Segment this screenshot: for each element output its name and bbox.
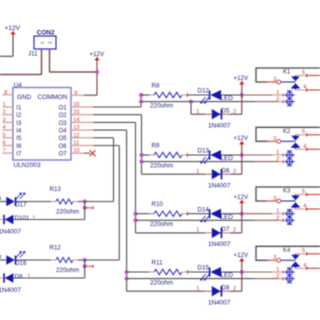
svg-text:220ohm: 220ohm xyxy=(150,221,173,228)
svg-text:1: 1 xyxy=(3,102,6,108)
svg-text:220ohm: 220ohm xyxy=(150,102,173,109)
svg-text:O1: O1 xyxy=(59,105,68,111)
svg-text:O6: O6 xyxy=(59,144,68,150)
svg-text:1: 1 xyxy=(196,286,199,292)
svg-text:COMMON: COMMON xyxy=(38,94,68,101)
svg-text:R13: R13 xyxy=(50,186,62,193)
svg-text:+12V: +12V xyxy=(234,75,249,82)
svg-text:I2: I2 xyxy=(16,113,22,119)
svg-text:12: 12 xyxy=(73,133,79,139)
svg-text:2: 2 xyxy=(233,228,236,234)
svg-text:1: 1 xyxy=(196,228,199,234)
svg-text:ULN2003: ULN2003 xyxy=(14,162,41,169)
svg-text:7: 7 xyxy=(3,148,6,154)
svg-text:3: 3 xyxy=(273,77,276,83)
svg-text:1N4007: 1N4007 xyxy=(208,122,231,129)
svg-text:6: 6 xyxy=(3,141,6,147)
svg-text:+12V: +12V xyxy=(90,51,105,58)
svg-text:2: 2 xyxy=(276,274,279,280)
svg-text:K2: K2 xyxy=(283,129,291,135)
svg-text:+12V: +12V xyxy=(234,135,249,142)
svg-text:D14: D14 xyxy=(198,206,210,213)
svg-text:4: 4 xyxy=(303,204,306,210)
svg-text:1: 1 xyxy=(196,169,199,175)
svg-text:R8: R8 xyxy=(152,82,160,89)
svg-text:K1: K1 xyxy=(283,70,291,76)
svg-text:1N4007: 1N4007 xyxy=(0,229,21,236)
svg-text:2: 2 xyxy=(276,97,279,103)
svg-text:I3: I3 xyxy=(16,121,22,127)
svg-text:1: 1 xyxy=(196,109,199,115)
svg-text:R9: R9 xyxy=(152,142,160,149)
svg-text:I1: I1 xyxy=(16,105,22,111)
svg-text:4: 4 xyxy=(303,263,306,269)
svg-text:1: 1 xyxy=(276,150,279,156)
svg-text:1N4007: 1N4007 xyxy=(208,182,231,189)
svg-text:D101: D101 xyxy=(15,215,30,222)
svg-text:I6: I6 xyxy=(16,144,22,150)
svg-text:2: 2 xyxy=(47,41,52,44)
svg-text:15: 15 xyxy=(73,110,79,116)
svg-text:LED: LED xyxy=(221,214,234,221)
svg-text:3: 3 xyxy=(273,196,276,202)
svg-text:3: 3 xyxy=(273,136,276,142)
svg-text:K4: K4 xyxy=(283,248,291,254)
svg-text:LED: LED xyxy=(221,272,234,279)
svg-text:GND: GND xyxy=(17,94,32,101)
svg-text:5: 5 xyxy=(302,129,305,135)
svg-text:4: 4 xyxy=(3,125,6,131)
svg-text:R11: R11 xyxy=(152,259,163,266)
svg-text:D7: D7 xyxy=(222,226,230,233)
svg-text:1: 1 xyxy=(276,267,279,273)
svg-text:D15: D15 xyxy=(198,265,210,272)
svg-text:2: 2 xyxy=(233,169,236,175)
svg-text:D6: D6 xyxy=(222,167,230,174)
svg-text:2: 2 xyxy=(233,109,236,115)
svg-text:5: 5 xyxy=(302,189,305,195)
svg-text:2: 2 xyxy=(276,157,279,163)
svg-text:2: 2 xyxy=(233,286,236,292)
svg-text:D17: D17 xyxy=(15,202,27,209)
svg-text:220ohm: 220ohm xyxy=(150,279,173,286)
svg-text:1: 1 xyxy=(39,41,44,44)
svg-text:O5: O5 xyxy=(59,136,68,142)
svg-text:D16: D16 xyxy=(15,260,27,267)
svg-text:R12: R12 xyxy=(50,245,62,252)
svg-text:1N4007: 1N4007 xyxy=(0,287,21,294)
svg-text:2: 2 xyxy=(276,215,279,221)
svg-text:1: 1 xyxy=(276,209,279,215)
svg-text:LED: LED xyxy=(221,95,234,102)
svg-text:5: 5 xyxy=(3,133,6,139)
svg-text:O2: O2 xyxy=(59,113,68,119)
svg-text:14: 14 xyxy=(73,117,79,123)
svg-text:10: 10 xyxy=(73,148,79,154)
svg-text:1N4007: 1N4007 xyxy=(208,241,231,248)
svg-text:1: 1 xyxy=(28,274,31,280)
svg-text:11: 11 xyxy=(73,141,79,147)
svg-text:O4: O4 xyxy=(59,129,68,135)
svg-text:R10: R10 xyxy=(152,201,164,208)
svg-text:3: 3 xyxy=(3,117,6,123)
svg-text:I5: I5 xyxy=(16,136,22,142)
svg-text:5: 5 xyxy=(302,70,305,76)
svg-text:220ohm: 220ohm xyxy=(56,208,79,215)
svg-text:D12: D12 xyxy=(198,88,210,95)
svg-text:D5: D5 xyxy=(222,107,230,114)
svg-text:+12V: +12V xyxy=(5,25,21,32)
svg-text:U4: U4 xyxy=(14,82,22,89)
svg-text:D8: D8 xyxy=(222,284,230,291)
svg-text:1: 1 xyxy=(33,215,36,221)
svg-text:+12V: +12V xyxy=(234,194,249,201)
svg-text:J11: J11 xyxy=(28,51,38,58)
svg-text:16: 16 xyxy=(73,102,79,108)
svg-text:13: 13 xyxy=(73,125,79,131)
svg-text:4: 4 xyxy=(303,85,306,91)
svg-text:O3: O3 xyxy=(59,121,68,127)
svg-text:I4: I4 xyxy=(16,129,22,135)
svg-text:3: 3 xyxy=(273,255,276,261)
svg-text:1N4007: 1N4007 xyxy=(208,299,231,306)
svg-text:D9: D9 xyxy=(15,273,23,280)
svg-text:LED: LED xyxy=(221,155,234,162)
svg-text:I7: I7 xyxy=(16,152,22,158)
svg-text:5: 5 xyxy=(302,248,305,254)
svg-text:+12V: +12V xyxy=(234,252,249,259)
svg-text:220ohm: 220ohm xyxy=(56,267,79,274)
svg-text:4: 4 xyxy=(303,144,306,150)
svg-text:2: 2 xyxy=(3,110,6,116)
svg-text:1: 1 xyxy=(276,90,279,96)
svg-text:D13: D13 xyxy=(198,148,210,155)
svg-text:220ohm: 220ohm xyxy=(150,162,173,169)
svg-text:K3: K3 xyxy=(283,189,291,195)
svg-text:O7: O7 xyxy=(59,152,68,158)
